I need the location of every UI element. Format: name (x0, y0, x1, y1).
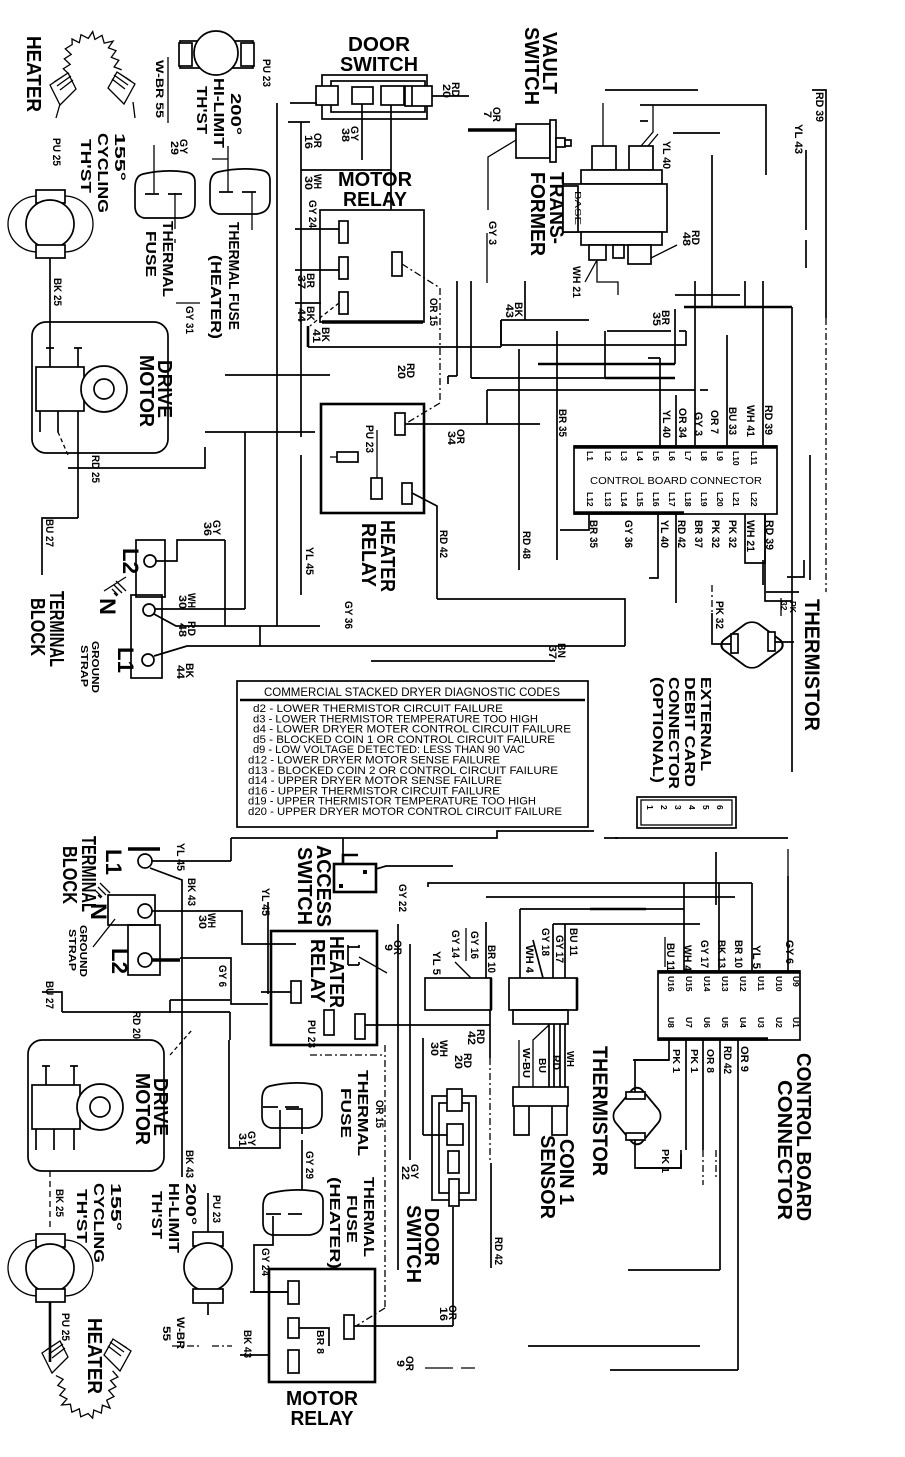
svg-text:N: N (86, 903, 111, 920)
wire RD42 vert lower (490, 1163, 492, 1268)
svg-text:PU 23: PU 23 (210, 1195, 222, 1223)
svg-text:GY 29: GY 29 (303, 1151, 315, 1179)
cycling thermostat 2 top clip (36, 1234, 65, 1247)
svg-text:RD 42: RD 42 (492, 1237, 504, 1265)
wire RD48 diagonal (651, 245, 677, 258)
door switch S1 contacts (352, 87, 373, 104)
wire L12 BR35 down (560, 514, 589, 530)
svg-text:FUSE: FUSE (343, 1195, 360, 1243)
svg-text:SWITCH: SWITCH (293, 847, 315, 925)
svg-text:7: 7 (481, 111, 493, 118)
wire y897 bus (486, 896, 735, 898)
svg-text:155°: 155° (107, 1183, 124, 1231)
cycling thermostat 2 bottom clip (36, 1289, 65, 1302)
wire y924 bus (553, 923, 700, 925)
wire GY31 lower (229, 1040, 280, 1148)
drive motor M1 stator (36, 367, 84, 411)
wire y884 bus (428, 883, 752, 887)
svg-text:1: 1 (645, 805, 655, 810)
svg-text:GY 17: GY 17 (553, 935, 565, 963)
wire vert x448 door (447, 376, 449, 384)
svg-text:d20 - UPPER DRYER MOTOR CONTRO: d20 - UPPER DRYER MOTOR CONTROL CIRCUIT … (248, 806, 562, 818)
svg-text:DOOR: DOOR (348, 34, 411, 56)
wire BK41 from relay (295, 302, 321, 304)
svg-text:PU 25: PU 25 (59, 1313, 71, 1341)
wire YL43 vertical (805, 150, 807, 268)
drive motor M1 pins bottom (40, 411, 78, 432)
wire x660 L5 up (648, 358, 660, 445)
terminal N screw (143, 604, 155, 616)
wire y909 bus (520, 908, 684, 910)
svg-text:L8: L8 (699, 451, 709, 461)
drive motor M1 rotor (81, 366, 127, 412)
control board connector L box (574, 446, 777, 514)
svg-text:RELAY: RELAY (306, 939, 328, 1004)
wire BK43 y319 (501, 320, 589, 345)
wire vert x277 PU23 (276, 103, 278, 626)
wire x713 vert (711, 155, 713, 307)
wire top-right horiz y105 (640, 105, 766, 175)
wire y390 (487, 389, 708, 391)
motor relay K1 terminal common (392, 252, 402, 276)
thermal fuse F1 body (135, 171, 195, 218)
connector U pin labels top row (666, 976, 801, 992)
wire vault switch lead (488, 140, 516, 210)
wire PU23 inside relay (376, 430, 378, 478)
wire RD42 from relay (412, 493, 437, 599)
svg-text:OR 9: OR 9 (738, 1046, 750, 1072)
coin sensor prongs (514, 1106, 567, 1135)
drive motor M2 outline (28, 1040, 164, 1171)
svg-text:9: 9 (382, 944, 394, 951)
svg-text:SWITCH: SWITCH (402, 1205, 424, 1283)
terminal L2 screw (144, 555, 156, 567)
svg-text:42: 42 (465, 1031, 477, 1045)
svg-text:GY 36: GY 36 (342, 601, 354, 629)
cycling thermostat top clip (36, 190, 65, 203)
svg-text:PK 1: PK 1 (688, 1049, 699, 1073)
control board connector U box (658, 971, 800, 1040)
svg-text:CYCLING: CYCLING (90, 1183, 107, 1263)
svg-text:OR 15: OR 15 (427, 298, 439, 326)
svg-text:GY 31: GY 31 (183, 306, 195, 334)
coin sensor body (509, 978, 577, 1010)
svg-text:HEATER: HEATER (22, 36, 44, 113)
wire y295 transformer (675, 294, 740, 296)
svg-text:PU 23: PU 23 (305, 1020, 317, 1048)
door switch S1 terminal right (405, 86, 432, 106)
thermistor RT2 contacts (626, 1092, 645, 1099)
heater relay K3 left terminal (291, 981, 301, 1003)
svg-text:L1: L1 (101, 849, 126, 875)
wire x525 vert (524, 281, 526, 320)
drive motor M2 rotor (77, 1084, 123, 1130)
wire OR34 from relay (405, 423, 540, 425)
wire thermistor RT1 left lead (712, 613, 731, 644)
wire WH30 from N (155, 608, 245, 610)
thermal fuse F1 contacts (145, 193, 182, 195)
svg-text:30: 30 (302, 176, 314, 190)
thermal fuse F4 body (263, 1190, 323, 1235)
wire x487 vert (486, 390, 488, 424)
svg-text:WH 41: WH 41 (744, 405, 756, 437)
thermistor RT2 bottom lead (635, 1140, 681, 1168)
motor relay K1 terminal 3 (339, 292, 348, 314)
wire cycling tstat to motor (49, 258, 51, 348)
svg-text:THERMISTOR: THERMISTOR (588, 1046, 611, 1176)
debit card connector J1 box (637, 797, 736, 828)
svg-text:20: 20 (452, 1055, 464, 1069)
svg-text:GY 6: GY 6 (216, 965, 228, 987)
wires into connector U top (664, 937, 666, 967)
svg-text:L2: L2 (603, 451, 613, 461)
wire PK1 corner lower (637, 1154, 681, 1168)
wire motor2 to cycling tstat (49, 1171, 51, 1231)
motor relay K4 terminal 1 (288, 1281, 299, 1304)
connector L pin labels top row (585, 451, 759, 466)
svg-text:YL 40: YL 40 (660, 410, 672, 438)
drive motor M2 pins bottom (36, 1129, 74, 1150)
svg-text:(HEATER): (HEATER) (207, 255, 224, 339)
wire x810 vert right (809, 455, 811, 580)
svg-text:41: 41 (310, 329, 322, 343)
vault switch body (516, 124, 550, 158)
svg-text:BU 33: BU 33 (726, 407, 738, 435)
svg-text:44: 44 (174, 665, 186, 680)
connector L pin labels bottom row (585, 492, 759, 507)
svg-text:OR 8: OR 8 (704, 1049, 715, 1073)
wire GY36 x225 down (224, 540, 226, 626)
cycling thermostat bottom clip (36, 245, 65, 258)
svg-text:RD 39: RD 39 (813, 92, 825, 122)
wire bus y661 BN37 (371, 660, 555, 662)
wire YL45 lower long (231, 838, 268, 994)
wire L16 YL40 down (649, 514, 658, 578)
svg-text:BK 43: BK 43 (185, 878, 197, 906)
svg-text:L20: L20 (715, 492, 725, 507)
heater E1 coil (63, 32, 121, 75)
svg-text:30: 30 (196, 915, 208, 929)
svg-text:L10: L10 (731, 451, 741, 466)
svg-text:HI-LIMIT: HI-LIMIT (165, 1183, 182, 1253)
wire from door switch contact to motor relay (390, 105, 392, 210)
svg-text:YL 40: YL 40 (660, 141, 672, 169)
svg-text:L3: L3 (619, 451, 629, 461)
terminal L1 screw (142, 654, 154, 666)
cycling thermostat 2 disc (26, 1244, 74, 1292)
svg-text:OR 34: OR 34 (676, 408, 688, 439)
wire y345 (501, 331, 686, 345)
svg-text:RELAY: RELAY (357, 523, 379, 588)
wire thick y307 (684, 306, 792, 309)
wire GY24 into relay (295, 228, 339, 230)
wire WBR55 dash (172, 1345, 232, 1347)
svg-text:W-BU: W-BU (520, 1048, 531, 1078)
motor relay K1 box (320, 210, 424, 322)
svg-text:OR 7: OR 7 (708, 410, 720, 434)
svg-text:STRAP: STRAP (78, 645, 89, 687)
svg-text:3: 3 (673, 805, 683, 810)
svg-text:155°: 155° (111, 133, 128, 181)
diagnostic codes rows (248, 703, 571, 818)
svg-text:U10: U10 (774, 976, 784, 992)
wire L2 to GY36 (156, 540, 225, 561)
wire y1347 line (610, 1345, 700, 1347)
wire ground strap TB2 (93, 919, 115, 947)
thermistor RT1 body (717, 619, 787, 671)
wire x792 RD39 right (791, 307, 793, 772)
svg-text:EXTERNAL: EXTERNAL (697, 677, 714, 771)
wire y331 (607, 330, 686, 332)
svg-text:CYCLING: CYCLING (94, 133, 111, 213)
svg-text:RD 42: RD 42 (721, 1046, 733, 1074)
svg-text:L9: L9 (715, 451, 725, 461)
svg-text:29: 29 (168, 141, 180, 155)
wire WH30 y170 (301, 169, 391, 171)
heater E2 terminal left (42, 1341, 68, 1373)
svg-text:L21: L21 (731, 492, 741, 507)
svg-text:200°: 200° (182, 1183, 199, 1225)
wire y1345 lower right (528, 1345, 610, 1347)
svg-text:RELAY: RELAY (343, 189, 408, 211)
heater relay K2 box (321, 404, 424, 513)
svg-text:GY 24: GY 24 (306, 200, 318, 229)
wire K3 right terminal out (365, 1024, 490, 1026)
svg-text:GY 36: GY 36 (622, 520, 634, 548)
svg-text:200°: 200° (227, 93, 244, 135)
svg-text:THERMAL: THERMAL (159, 221, 176, 297)
svg-text:PK 1: PK 1 (659, 1149, 670, 1173)
wire RD20 from door switch (432, 95, 469, 97)
svg-text:W-BR 55: W-BR 55 (153, 60, 165, 118)
terminal N TB2 screw (138, 904, 152, 918)
wire GY24 into K4 (250, 1291, 288, 1293)
svg-text:RELAY: RELAY (291, 1408, 355, 1430)
svg-text:L16: L16 (651, 492, 661, 507)
door switch S2 outer shell (432, 1096, 476, 1200)
svg-text:L1: L1 (585, 451, 595, 461)
svg-text:U6: U6 (702, 1017, 712, 1028)
cycling thermostat disc (26, 200, 74, 248)
svg-text:L22: L22 (749, 492, 759, 507)
wire top-right y120 corner (640, 121, 720, 133)
wire right step WH21 (763, 560, 804, 585)
heater relay K3 top contact (348, 945, 359, 965)
thermistor RT2 top lead (635, 1060, 669, 1092)
wire bus y375 (225, 374, 330, 376)
svg-text:GROUND: GROUND (89, 641, 100, 693)
wire L21 WH21 down loop (745, 514, 765, 563)
heater relay K3 terminal right-bottom (355, 1014, 365, 1039)
wire thick into vault switch (468, 128, 516, 131)
wire ground strap diagonal (104, 577, 126, 591)
terminal block TB2 N rect (108, 895, 155, 925)
svg-text:L2: L2 (107, 948, 132, 974)
svg-text:BR 8: BR 8 (314, 1330, 325, 1354)
svg-text:L2: L2 (118, 548, 143, 574)
wire GY3 (486, 233, 488, 283)
wire BK43 into relay2 (240, 1354, 269, 1356)
svg-text:BU: BU (536, 1058, 547, 1073)
motor relay K4 common terminal (344, 1315, 354, 1339)
svg-text:BASE: BASE (573, 191, 583, 225)
thermal fuse F3 body (262, 1083, 322, 1128)
wire PU23 into hilimit2 (207, 1193, 209, 1232)
svg-text:48: 48 (680, 232, 692, 246)
wire GY38 from door switch contact (361, 104, 363, 160)
debit card pins 1-6 (645, 805, 725, 810)
svg-text:BK 25: BK 25 (53, 1189, 65, 1217)
heater relay K2 terminal top-right (395, 413, 405, 435)
svg-text:THERMAL: THERMAL (360, 1177, 377, 1257)
drive motor M1 outline (32, 322, 168, 453)
wire y1370 line (610, 1369, 738, 1371)
wire RD48 from N diagonal (154, 614, 320, 646)
svg-text:U5: U5 (720, 1017, 730, 1028)
svg-text:31: 31 (236, 1133, 248, 1147)
svg-text:MOTOR: MOTOR (286, 1388, 359, 1410)
wire right edge x826 dashdot lower (825, 591, 827, 593)
wire into S2 contact2 (423, 1038, 447, 1135)
wire PK32 dashdot L19 (711, 585, 713, 613)
wire motor to BU27 (77, 432, 79, 518)
door switch S1 terminal far-left (316, 86, 338, 105)
wire thermistor RT1 right lead (775, 641, 794, 643)
svg-text:L18: L18 (683, 492, 693, 507)
wire BU27 down-left (42, 518, 78, 575)
wire GY24 hilimit2 to relay (207, 1303, 209, 1315)
YL5 box (425, 978, 491, 1010)
wire bus y347 (308, 320, 501, 347)
drive motor M2 stator (32, 1085, 80, 1129)
door switch S1 outer shell (322, 75, 427, 119)
thermistor RT2 body (610, 1084, 664, 1148)
wire BU27 lower (42, 992, 62, 1012)
svg-text:U14: U14 (702, 976, 712, 992)
svg-text:6: 6 (715, 805, 725, 810)
access switch S3 contacts (363, 870, 367, 874)
thermal fuse F2 contacts (219, 191, 256, 193)
wire K4 common to OR16 (354, 1325, 453, 1327)
svg-text:HEATER: HEATER (83, 1318, 105, 1395)
heater relay K3 box (271, 931, 377, 1045)
svg-text:WH 4: WH 4 (523, 945, 535, 974)
transformer T1 secondary pin right (629, 146, 653, 170)
wire x398 long vert (397, 924, 399, 1270)
svg-text:U16: U16 (666, 976, 676, 992)
transformer T1 bottom pins (589, 245, 606, 260)
coin sensor lower body (513, 1087, 568, 1106)
wire x695 vert L8 (694, 281, 696, 445)
terminal L2 TB2 screw (138, 953, 152, 967)
svg-text:TH'ST: TH'ST (77, 139, 94, 193)
wire x605 vert (604, 331, 606, 378)
svg-text:YL 45: YL 45 (174, 843, 186, 871)
hi-limit thermostat 2 disc (184, 1243, 232, 1291)
svg-text:38: 38 (339, 128, 351, 142)
wire transformer secondary left up (602, 103, 604, 146)
wire BR8 inside K4 (299, 1328, 329, 1346)
svg-text:L5: L5 (651, 451, 661, 461)
svg-text:WH 4: WH 4 (681, 945, 693, 972)
wire x788 stub (787, 849, 789, 876)
svg-text:THERMISTOR: THERMISTOR (800, 599, 823, 731)
svg-text:THERMAL FUSE: THERMAL FUSE (225, 222, 242, 330)
heater E1 terminal left (50, 73, 76, 105)
svg-text:55: 55 (160, 1326, 172, 1341)
wire L1 TB2 right (152, 860, 231, 862)
transformer T1 top plate (581, 170, 662, 184)
wire OR16/corner x301 (290, 103, 301, 437)
wire heater leads (56, 102, 135, 118)
wire GY31 (176, 302, 200, 304)
door switch S2 contact 3 (448, 1151, 459, 1173)
svg-text:COMMERCIAL STACKED DRYER DIAGN: COMMERCIAL STACKED DRYER DIAGNOSTIC CODE… (264, 685, 560, 699)
wire W-BR 55 (167, 57, 169, 123)
heater relay K2 terminal bottom-right (402, 483, 412, 504)
drive motor M1 pins top (46, 348, 82, 367)
svg-text:L17: L17 (667, 492, 677, 507)
wire RD25 bus y432 (205, 431, 315, 433)
svg-text:THERMAL: THERMAL (354, 1070, 371, 1156)
svg-text:BLOCK: BLOCK (26, 598, 48, 656)
svg-text:FORMER: FORMER (526, 172, 548, 257)
wire RD42 x490 (489, 1010, 491, 1058)
thermal fuse F2 body (210, 169, 270, 214)
wire to F2 (212, 146, 252, 230)
door switch S2 terminal top (447, 1089, 462, 1111)
svg-text:N: N (95, 598, 120, 615)
svg-text:PU 23: PU 23 (260, 59, 272, 87)
svg-text:RD 42: RD 42 (437, 530, 449, 558)
svg-text:20: 20 (395, 365, 407, 379)
wire x763 vert L11 (762, 281, 764, 445)
heater relay K2 terminal mid (371, 478, 382, 499)
wire YL40 diagonal (648, 134, 658, 146)
hi-limit thermostat 200 disc (194, 31, 238, 75)
heater E2 terminal right (104, 1339, 131, 1371)
svg-text:37: 37 (546, 645, 558, 659)
wire RD20 lower (170, 1000, 230, 1013)
svg-text:GY 17: GY 17 (698, 940, 710, 968)
svg-text:U13: U13 (720, 976, 730, 992)
svg-text:36: 36 (201, 522, 213, 536)
svg-text:STRAP: STRAP (66, 929, 77, 971)
svg-text:U12: U12 (738, 976, 748, 992)
svg-text:U15: U15 (684, 976, 694, 992)
heater relay K2 terminal left (337, 452, 358, 462)
wire x675 vert (674, 309, 676, 364)
svg-text:U9: U9 (791, 976, 801, 987)
ground symbol TB1 (112, 581, 126, 596)
svg-text:U2: U2 (774, 1017, 784, 1028)
svg-text:35: 35 (650, 312, 662, 326)
svg-text:(OPTIONAL): (OPTIONAL) (649, 677, 666, 783)
wire x230 down to motor2 (229, 1012, 231, 1040)
svg-text:CONNECTOR: CONNECTOR (773, 1080, 795, 1221)
wire BR35 vert x557 (556, 331, 558, 560)
heater E1 terminal right (108, 72, 135, 104)
motor relay K4 terminal 2 (288, 1318, 299, 1338)
wire YL45 vert (300, 455, 302, 595)
svg-text:48: 48 (176, 623, 188, 637)
wire x745 vert (744, 281, 746, 307)
wire BK44 from L1 (154, 646, 625, 656)
svg-text:BR 10: BR 10 (732, 940, 744, 968)
wire RD39 right edge long (812, 90, 826, 318)
motor relay K4 terminal 3 (288, 1350, 299, 1373)
svg-text:L12: L12 (585, 492, 595, 507)
